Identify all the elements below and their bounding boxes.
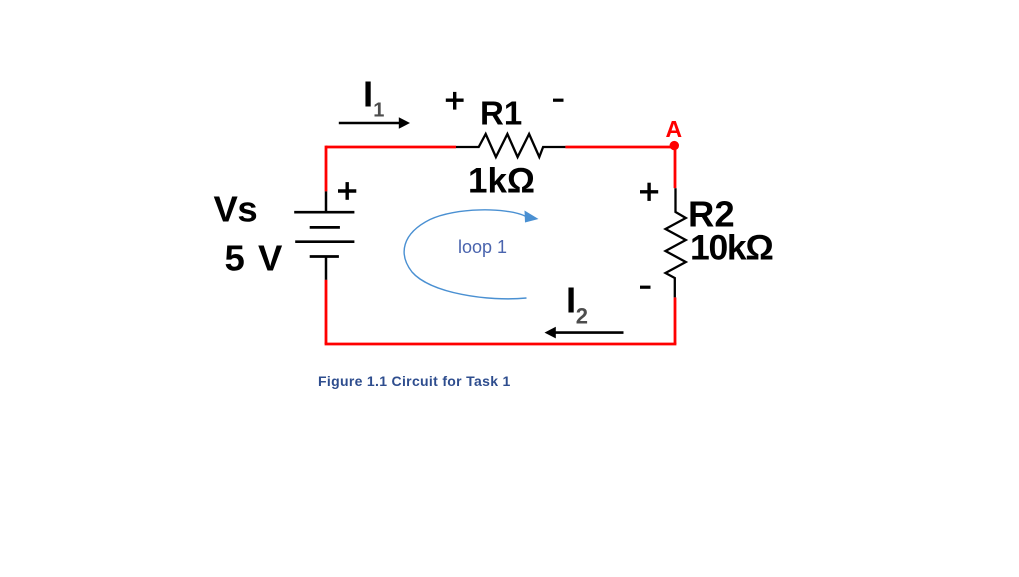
svg-text:I: I xyxy=(363,74,373,115)
resistor R2 xyxy=(666,188,686,297)
label loop 1 xyxy=(458,237,507,257)
label R1 xyxy=(480,95,522,132)
svg-text:2: 2 xyxy=(576,303,588,328)
value 10kΩ xyxy=(690,228,773,268)
value 5 V xyxy=(225,237,284,278)
svg-text:1: 1 xyxy=(373,99,384,121)
loop 1 arrow curve xyxy=(404,210,538,299)
label R2 xyxy=(688,193,735,234)
current I1 label xyxy=(363,74,384,122)
svg-text:loop 1: loop 1 xyxy=(458,237,507,257)
polarity minus R1 right xyxy=(553,99,564,102)
svg-text:R1: R1 xyxy=(480,95,522,132)
wire top-right red segment xyxy=(565,146,675,149)
polarity plus R2 top xyxy=(640,183,658,201)
current I2 label xyxy=(566,280,588,329)
polarity plus battery xyxy=(338,182,356,200)
caption Figure 1.1 xyxy=(318,373,511,389)
node A label xyxy=(666,116,683,142)
svg-text:10kΩ: 10kΩ xyxy=(690,228,773,268)
svg-text:A: A xyxy=(666,116,683,142)
wire left upper red segment xyxy=(325,146,328,192)
label Vs xyxy=(214,189,258,230)
wire bottom red segment xyxy=(325,343,677,346)
svg-text:5 V: 5 V xyxy=(225,237,284,278)
wire left lower red segment xyxy=(325,280,328,344)
polarity minus R2 bottom xyxy=(640,286,651,289)
current I2 arrow xyxy=(545,327,624,339)
node A dot xyxy=(670,141,679,150)
wire top-left red segment xyxy=(326,146,456,149)
svg-text:1kΩ: 1kΩ xyxy=(468,162,535,201)
wire right upper red segment xyxy=(674,146,677,189)
svg-text:Vs: Vs xyxy=(214,189,258,230)
svg-text:Figure 1.1 Circuit for Task 1: Figure 1.1 Circuit for Task 1 xyxy=(318,373,511,389)
battery Vs symbol xyxy=(294,191,354,279)
value 1kΩ xyxy=(468,162,535,201)
wire right lower red segment xyxy=(674,297,677,344)
current I1 arrow xyxy=(339,117,410,129)
resistor R1 xyxy=(456,134,565,157)
svg-text:I: I xyxy=(566,280,576,321)
polarity plus R1 left xyxy=(446,92,464,110)
